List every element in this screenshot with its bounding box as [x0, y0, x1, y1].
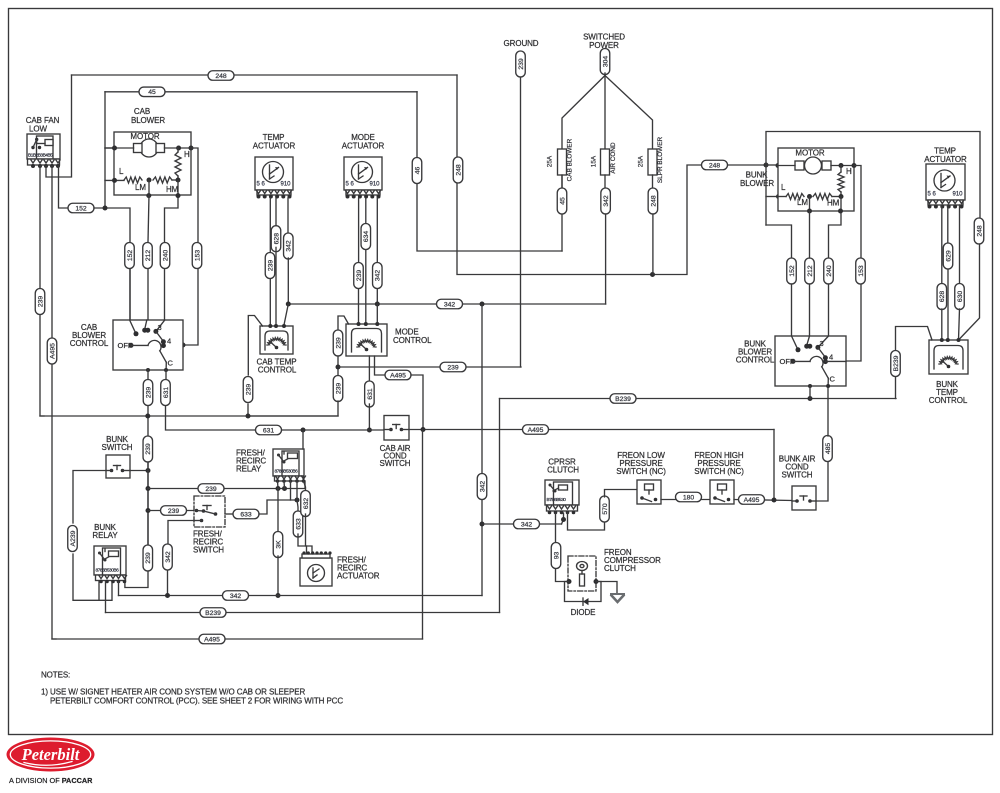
svg-text:239: 239: [335, 383, 342, 395]
svg-text:MOTOR: MOTOR: [795, 149, 824, 158]
fresh recirc relay pin wires: [302, 430, 304, 449]
wire 152: [68, 203, 94, 213]
svg-text:239: 239: [145, 387, 152, 399]
switch FRESH/RECIRC SWITCH: [193, 496, 225, 555]
svg-text:248: 248: [455, 164, 462, 176]
motor BUNK BLOWER: [778, 148, 857, 258]
wire 153: [165, 148, 198, 345]
svg-text:239: 239: [267, 260, 274, 272]
svg-text:A495: A495: [528, 427, 544, 434]
wire 342 drop: [481, 304, 483, 473]
svg-text:CONTROL: CONTROL: [70, 339, 109, 348]
wire A495 from mode control: [375, 356, 386, 375]
svg-text:239: 239: [205, 486, 217, 493]
switch CAB BLOWER CONTROL: [70, 320, 183, 370]
svg-text:153: 153: [194, 250, 201, 262]
wire 180: [661, 499, 710, 501]
svg-text:212: 212: [145, 250, 152, 262]
svg-text:L: L: [781, 183, 786, 192]
wire 631 horizontal y430: [256, 425, 282, 435]
fuse 15A AIR COND: [591, 142, 618, 175]
svg-text:A495: A495: [390, 372, 406, 379]
svg-text:15A: 15A: [591, 155, 598, 167]
svg-text:CONTROL: CONTROL: [929, 396, 968, 405]
svg-text:SWITCH (NC): SWITCH (NC): [616, 467, 666, 476]
svg-text:152: 152: [127, 250, 134, 262]
svg-text:SWITCH: SWITCH: [782, 471, 813, 480]
actuator TEMP ACTUATOR (bunk): [926, 164, 965, 209]
svg-text:631: 631: [367, 388, 374, 400]
svg-text:C: C: [168, 359, 174, 368]
svg-text:8786B530B6: 8786B530B6: [275, 469, 299, 475]
svg-text:240: 240: [826, 265, 833, 277]
svg-text:RELAY: RELAY: [236, 465, 262, 474]
svg-text:B239: B239: [893, 355, 900, 371]
clutch FREON COMPRESSOR CLUTCH: [567, 548, 662, 591]
svg-text:910: 910: [953, 192, 964, 198]
wire 248 below fuse: [652, 175, 654, 188]
svg-text:B1B2B3B4B5: B1B2B3B4B5: [28, 153, 53, 159]
svg-text:LM: LM: [797, 198, 808, 207]
svg-text:628: 628: [939, 291, 946, 303]
svg-text:153: 153: [858, 265, 865, 277]
diode: [565, 582, 602, 602]
svg-text:H: H: [846, 167, 852, 176]
svg-text:CONTROL: CONTROL: [393, 336, 432, 345]
svg-text:4: 4: [167, 337, 171, 346]
svg-text:212: 212: [807, 265, 814, 277]
ground: [596, 582, 617, 594]
svg-text:248: 248: [709, 162, 721, 169]
svg-text:CAB BLOWER: CAB BLOWER: [567, 138, 574, 181]
svg-text:152: 152: [789, 265, 796, 277]
switch BUNK AIR COND SWITCH: [779, 455, 816, 511]
wire 632: [304, 481, 306, 493]
fuse 25A SLPR BLOWER: [638, 137, 665, 184]
wire 248 top: [72, 74, 458, 76]
svg-text:239: 239: [245, 384, 252, 396]
wire B239 y611: [106, 612, 500, 614]
svg-text:HM: HM: [827, 199, 840, 208]
wire 45 below fuse: [561, 175, 563, 188]
switch BUNK BLOWER CONTROL: [736, 336, 846, 386]
svg-text:248: 248: [976, 225, 983, 237]
svg-text:B239: B239: [615, 396, 631, 403]
svg-text:239: 239: [37, 296, 44, 308]
wire 239 to fresh recirc relay: [148, 488, 305, 490]
svg-text:25A: 25A: [547, 155, 554, 167]
svg-text:L: L: [119, 167, 124, 176]
switch FREON HIGH PRESSURE SWITCH: [694, 451, 744, 504]
wire 239 cab temp left: [248, 316, 262, 376]
svg-text:25A: 25A: [638, 155, 645, 167]
svg-text:LM: LM: [135, 183, 146, 192]
svg-text:CLUTCH: CLUTCH: [604, 564, 636, 573]
svg-text:CONTROL: CONTROL: [736, 356, 775, 365]
svg-text:3: 3: [158, 323, 162, 332]
connector CPRSR CLUTCH: [545, 458, 579, 515]
svg-text:342: 342: [375, 270, 382, 282]
svg-text:631: 631: [163, 387, 170, 399]
svg-text:304: 304: [602, 56, 609, 68]
svg-text:628: 628: [273, 233, 280, 245]
svg-text:ACTUATOR: ACTUATOR: [924, 155, 967, 164]
svg-text:C: C: [830, 375, 836, 384]
svg-text:239: 239: [145, 443, 152, 455]
wire 342 from fresh recirc switch: [168, 521, 194, 544]
actuator TEMP ACTUATOR: [255, 157, 293, 199]
svg-text:631: 631: [263, 427, 275, 434]
svg-text:46: 46: [414, 167, 421, 175]
svg-text:SWITCH: SWITCH: [380, 459, 411, 468]
svg-text:CONTROL: CONTROL: [258, 366, 297, 375]
wire 46 right leg: [417, 92, 562, 251]
svg-text:239: 239: [447, 364, 459, 371]
Peterbilt logo: [7, 738, 95, 786]
wire 342 to cprsr: [482, 523, 562, 525]
fuse 25A CAB BLOWER: [547, 138, 574, 181]
svg-text:93: 93: [553, 552, 560, 560]
wire 3K resistor: [277, 489, 279, 534]
svg-text:AIR COND: AIR COND: [610, 142, 617, 174]
svg-text:BLOWER: BLOWER: [131, 116, 165, 125]
wire 239 horizontal to ground wire: [338, 366, 521, 368]
svg-text:342: 342: [521, 521, 533, 528]
wire B239 horizontal y398: [500, 398, 897, 400]
svg-text:HM: HM: [166, 185, 179, 194]
svg-text:3K: 3K: [275, 540, 282, 549]
bunk temp actuator wires 628/629/630: [941, 205, 943, 284]
svg-text:342: 342: [444, 301, 456, 308]
wire A495 y430: [409, 429, 774, 431]
bunk relay pin wires: [98, 582, 100, 601]
wire A495 y639: [52, 638, 423, 640]
svg-text:8786B530B6: 8786B530B6: [96, 568, 120, 574]
svg-text:5 6: 5 6: [928, 192, 937, 198]
svg-text:240: 240: [162, 250, 169, 262]
wire 153 bunk: [846, 166, 861, 362]
switch BUNK SWITCH: [102, 435, 133, 478]
svg-text:342: 342: [479, 481, 486, 493]
wire 633: [225, 513, 233, 515]
svg-text:SWITCH (NC): SWITCH (NC): [694, 467, 744, 476]
svg-text:910: 910: [281, 182, 292, 188]
svg-text:H: H: [184, 150, 190, 159]
temp actuator wires 239/628/342: [269, 198, 271, 252]
svg-text:SWITCH: SWITCH: [102, 443, 133, 452]
svg-text:485: 485: [825, 443, 832, 455]
svg-text:634: 634: [363, 231, 370, 243]
wire 342 y595: [119, 595, 483, 597]
svg-text:ACTUATOR: ACTUATOR: [342, 142, 385, 151]
wire 485: [816, 461, 828, 501]
svg-text:180: 180: [683, 494, 695, 501]
svg-text:CAB: CAB: [134, 107, 150, 116]
svg-text:B239: B239: [205, 610, 221, 617]
svg-text:248: 248: [650, 195, 657, 207]
svg-text:ACTUATOR: ACTUATOR: [253, 142, 296, 151]
wire 239 mode left: [338, 316, 349, 330]
svg-text:629: 629: [945, 250, 952, 262]
svg-text:342: 342: [230, 593, 242, 600]
svg-text:239: 239: [356, 270, 363, 282]
svg-text:152: 152: [75, 205, 87, 212]
wire 570: [600, 496, 610, 522]
svg-text:239: 239: [518, 58, 525, 70]
connector CAB FAN LOW: [26, 116, 60, 168]
svg-text:B7B6B530: B7B6B530: [547, 497, 567, 503]
switch CAB AIR COND SWITCH: [380, 416, 411, 469]
svg-text:633: 633: [240, 511, 252, 518]
wire A239: [73, 471, 106, 524]
svg-text:DIODE: DIODE: [571, 608, 596, 617]
wire 248 right leg: [457, 75, 766, 275]
svg-text:RELAY: RELAY: [92, 531, 118, 540]
svg-text:630: 630: [957, 291, 964, 303]
svg-text:BLOWER: BLOWER: [740, 179, 774, 188]
control CAB TEMP CONTROL: [257, 324, 297, 375]
svg-text:CLUTCH: CLUTCH: [547, 466, 579, 475]
wire 239 to fresh recirc switch: [148, 510, 194, 512]
mode actuator wires 239/634/342: [358, 198, 360, 262]
svg-text:570: 570: [602, 503, 609, 515]
svg-text:342: 342: [165, 551, 172, 563]
svg-text:5 6: 5 6: [257, 182, 266, 188]
svg-text:4: 4: [829, 353, 833, 362]
svg-text:248: 248: [215, 73, 227, 80]
svg-text:5 6: 5 6: [346, 182, 355, 188]
actuator MODE ACTUATOR: [344, 157, 382, 199]
relay BUNK RELAY: [92, 523, 126, 583]
svg-text:632: 632: [303, 498, 310, 510]
wire 239 horizontal y416: [40, 415, 338, 417]
wire 342 horizontal: [288, 303, 605, 305]
svg-text:910: 910: [370, 182, 381, 188]
control MODE CONTROL: [346, 322, 432, 356]
svg-text:SWITCH: SWITCH: [193, 546, 224, 555]
control BUNK TEMP CONTROL: [929, 338, 968, 405]
svg-text:239: 239: [335, 337, 342, 349]
wire A495 to bunk air cond switch: [734, 500, 792, 501]
svg-text:45: 45: [148, 89, 156, 96]
wire B239 bunk temp left: [896, 327, 933, 352]
svg-text:PETERBILT COMFORT CONTROL (PCC: PETERBILT COMFORT CONTROL (PCC). SEE SHE…: [50, 697, 343, 706]
svg-text:239: 239: [168, 508, 180, 515]
svg-text:A495: A495: [744, 497, 760, 504]
svg-text:45: 45: [559, 197, 566, 205]
svg-text:3: 3: [820, 339, 824, 348]
bunk motor wires: [787, 258, 797, 284]
svg-text:GROUND: GROUND: [504, 39, 539, 48]
svg-text:SLPR BLOWER: SLPR BLOWER: [657, 137, 664, 184]
wires from switched power to fuses: [562, 76, 605, 150]
wire 239 left bus: [35, 289, 45, 315]
svg-text:A495: A495: [49, 343, 56, 359]
svg-text:A495: A495: [204, 636, 220, 643]
wires motor to cab blower control: [143, 243, 153, 269]
switch FREON LOW PRESSURE SWITCH: [616, 451, 666, 504]
svg-text:342: 342: [286, 240, 293, 252]
svg-text:LOW: LOW: [29, 125, 47, 134]
wire A495 left bus: [47, 338, 57, 364]
motor CAB BLOWER: [105, 107, 194, 242]
wire 45 top: [105, 91, 417, 93]
wire 631 from mode control: [368, 356, 370, 384]
wire 239 down to bunk relay: [143, 545, 153, 571]
svg-text:239: 239: [145, 552, 152, 564]
wire: cab fan low pin wires: [39, 166, 41, 288]
relay FRESH/RECIRC RELAY: [236, 449, 306, 483]
svg-text:A DIVISION OF PACCAR: A DIVISION OF PACCAR: [9, 776, 93, 785]
wire 342 below fuse: [604, 175, 606, 188]
wire 239 bunk col: [130, 470, 148, 472]
wire 248 to bunk: [764, 163, 769, 168]
svg-text:A239: A239: [70, 530, 77, 546]
svg-text:633: 633: [295, 518, 302, 530]
cprsr pin wires: [561, 517, 566, 522]
actuator FRESH/RECIRC ACTUATOR: [300, 551, 380, 586]
svg-text:342: 342: [603, 195, 610, 207]
svg-text:1) USE W/ SIGNET HEATER AIR CO: 1) USE W/ SIGNET HEATER AIR COND SYSTEM …: [41, 688, 305, 697]
svg-text:NOTES:: NOTES:: [41, 671, 70, 680]
wire B239 drop: [499, 399, 501, 613]
svg-text:ACTUATOR: ACTUATOR: [337, 572, 380, 581]
